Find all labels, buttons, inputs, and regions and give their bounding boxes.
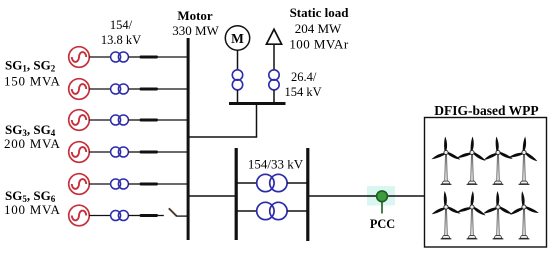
transformer T7 (26.4/154 kV, motor)	[232, 70, 242, 90]
wire transformer T6 to cable	[128, 215, 139, 217]
wire static load to transformer T8	[273, 44, 275, 70]
cable/breaker bar of SG2 branch	[140, 88, 159, 91]
wire bus B2 to transformer T10	[237, 210, 257, 212]
svg-text:154/33 kV: 154/33 kV	[248, 157, 304, 172]
cable/breaker bar of SG1 branch	[140, 56, 159, 59]
svg-text:13.8 kV: 13.8 kV	[101, 33, 141, 47]
transformer T4 (154/13.8 kV)	[111, 147, 129, 157]
cable/breaker bar of SG4 branch	[140, 151, 159, 154]
PCC stub	[381, 202, 383, 214]
wire PCC to WPP box	[387, 195, 425, 197]
transformer T9 (154/33 kV)	[257, 174, 287, 191]
wire transformer T10 to bus B3	[287, 210, 307, 212]
svg-text:26.4/: 26.4/	[291, 70, 317, 84]
generator SG4	[69, 142, 90, 163]
wire SG5 to transformer T5	[89, 183, 110, 185]
svg-text:100 MVA: 100 MVA	[4, 202, 61, 217]
wire bus B1 to bus B2	[188, 195, 235, 197]
svg-text:200 MVA: 200 MVA	[4, 136, 61, 151]
wind turbine WT2	[456, 135, 488, 184]
wire SG3 to transformer T3	[89, 119, 110, 121]
wind turbine WT7	[483, 191, 514, 239]
wire open switch to bus B1	[176, 215, 187, 217]
wind turbine WT1	[431, 136, 461, 184]
svg-text:SG1, SG2: SG1, SG2	[5, 58, 56, 74]
wind turbine WT5	[430, 190, 461, 239]
wire transformer T3 to cable	[128, 119, 139, 121]
wire SG5 branch to bus B1	[158, 183, 187, 185]
wire SG6 to transformer T6	[89, 215, 110, 217]
svg-text:204 MW: 204 MW	[295, 21, 342, 36]
svg-text:154 kV: 154 kV	[285, 85, 322, 99]
wire bus B3 to PCC	[309, 195, 377, 197]
transformer T2 (154/13.8 kV)	[111, 84, 129, 94]
svg-text:Motor: Motor	[177, 8, 213, 23]
generator SG3	[69, 110, 90, 131]
svg-text:M: M	[231, 31, 244, 46]
bus B4 (motor/static-load 26.4 kV bus)	[229, 102, 286, 105]
svg-text:154/: 154/	[110, 18, 133, 32]
PCC highlight	[367, 186, 395, 206]
wire SG4 to transformer T4	[89, 151, 110, 153]
transformer T3 (154/13.8 kV)	[111, 115, 129, 125]
cable/breaker bar of SG3 branch	[140, 119, 159, 122]
generator SG1	[69, 47, 90, 68]
transformer T1 (154/13.8 kV)	[111, 52, 129, 62]
wire SG4 branch to bus B1	[158, 151, 187, 153]
svg-text:330 MW: 330 MW	[172, 23, 219, 38]
wire SG2 branch to bus B1	[158, 88, 187, 90]
svg-text:DFIG-based WPP: DFIG-based WPP	[434, 103, 538, 118]
wind turbine WT8	[508, 190, 540, 239]
transformer T8 (26.4/154 kV, static load)	[269, 70, 279, 90]
generator SG6	[69, 205, 90, 226]
wire transformer T9 to bus B3	[287, 182, 307, 184]
wire transformer T8 to bus B4	[273, 90, 275, 103]
svg-text:150 MVA: 150 MVA	[4, 73, 61, 88]
wind turbine WT4	[508, 135, 541, 185]
static load arrow symbol	[266, 29, 281, 44]
cable/breaker bar of SG5 branch	[140, 183, 159, 186]
svg-text:Static load: Static load	[290, 5, 350, 20]
wire SG3 branch to bus B1	[158, 119, 187, 121]
wire transformer T4 to cable	[128, 151, 139, 153]
wire SG2 to transformer T2	[89, 88, 110, 90]
cable/breaker bar of SG6 branch	[140, 214, 159, 217]
bus B2 (154 kV sending bus)	[235, 148, 238, 240]
generator SG5	[69, 174, 90, 195]
wire tie to bus B1	[188, 136, 257, 138]
wind turbine WT3	[482, 136, 514, 185]
wire motor M1 to transformer T7	[237, 50, 239, 70]
bus B3 (33 kV receiving bus)	[306, 148, 309, 241]
node PCC (green dot)	[377, 191, 388, 202]
DFIG-based WPP box	[425, 118, 547, 248]
transformer T5 (154/13.8 kV)	[111, 179, 129, 189]
svg-text:100 MVAr: 100 MVAr	[289, 37, 349, 52]
wire bus B2 to transformer T9	[237, 182, 257, 184]
wire transformer T5 to cable	[128, 183, 139, 185]
wire SG1 to transformer T1	[89, 56, 110, 58]
wire SG1 branch to bus B1	[158, 56, 187, 58]
bus B1 (154 kV main bus)	[187, 38, 190, 240]
wire transformer T1 to cable	[128, 56, 139, 58]
wire transformer T7 to bus B4	[237, 90, 239, 103]
transformer T10 (154/33 kV)	[257, 202, 287, 219]
wire SG6 branch to open switch	[158, 215, 164, 217]
generator SG2	[69, 79, 90, 100]
wire transformer T2 to cable	[128, 88, 139, 90]
wind turbine WT6	[456, 189, 489, 238]
open switch (tripped SG6)	[169, 208, 177, 216]
motor M1	[225, 26, 249, 50]
transformer T6 (154/13.8 kV)	[111, 211, 129, 221]
svg-text:PCC: PCC	[370, 217, 395, 231]
wire bus B4 down-drop	[256, 104, 258, 137]
